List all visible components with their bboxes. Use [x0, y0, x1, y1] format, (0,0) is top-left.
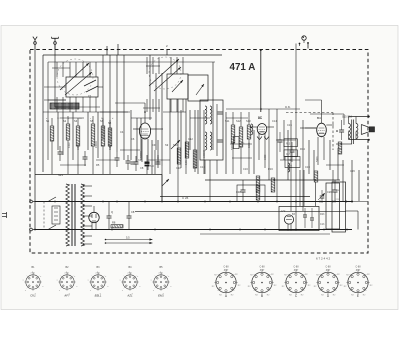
volume pot arrow [162, 179, 169, 186]
tone network box A [326, 183, 340, 229]
resistor R2 [66, 124, 70, 140]
socket A caption [225, 294, 228, 298]
wire tuner v0 [102, 55, 104, 140]
socket EBL1 top labels [97, 266, 101, 275]
coil L2 box [167, 74, 188, 99]
capacitor C right1 [336, 120, 344, 140]
wire dens v6 [136, 118, 138, 162]
resistor R32 [193, 150, 197, 168]
junction dots [34, 201, 348, 231]
tuning gang C1 plates [84, 80, 98, 98]
wire bus y180 [205, 179, 340, 181]
socket CK1 caption [30, 294, 36, 298]
wire dens v2 [72, 112, 74, 160]
IF transformer S4 box [200, 100, 223, 160]
wire border tick 1 [117, 44, 119, 55]
svg-text:Q: Q [111, 210, 113, 214]
svg-text:C-88: C-88 [326, 267, 332, 269]
wire R9 leads [248, 112, 250, 174]
wire tuner v12 [212, 62, 214, 150]
tube B1 CK1 [139, 123, 150, 139]
resistor R9 [247, 125, 251, 139]
svg-text:R13: R13 [286, 144, 291, 146]
socket AF7 caption [63, 294, 70, 298]
socket diagram E [346, 271, 370, 295]
capacitor C6 [134, 156, 139, 171]
model label 471 A [230, 62, 256, 73]
antenna symbol [33, 37, 37, 50]
svg-text:R14: R14 [300, 147, 305, 151]
svg-text:S8: S8 [108, 121, 112, 125]
wire right v2 [283, 120, 285, 160]
earth ground symbol [52, 37, 59, 50]
coil S7 [251, 112, 253, 135]
capacitor C20 [327, 180, 338, 202]
svg-text:R8: R8 [112, 221, 116, 225]
network box mid [237, 185, 265, 202]
socket CK1 pin numbers [23, 273, 45, 295]
svg-text:C13: C13 [200, 165, 205, 169]
socket EBL1 caption [95, 294, 102, 298]
wire output top [310, 114, 344, 125]
svg-text:S13: S13 [246, 119, 251, 123]
switch S1 wiper [60, 63, 92, 95]
resistor R10 [256, 176, 260, 192]
svg-text:3000: 3000 [248, 142, 251, 148]
resistor R8 [111, 221, 123, 228]
svg-text:C26: C26 [350, 169, 355, 173]
drawing number 67242 [316, 257, 331, 261]
svg-text:4000: 4000 [68, 142, 71, 148]
socket base EBL1 [89, 273, 107, 291]
capacitor C5 [126, 155, 131, 170]
wire right v1 [276, 109, 278, 201]
tube B5 AZ1 [89, 212, 99, 222]
socket A pin labels [212, 269, 241, 296]
wire dens v12 [197, 110, 199, 174]
socket E caption [357, 294, 359, 298]
wire mid v0 [154, 150, 156, 174]
mains terminals [30, 200, 33, 231]
socket E pin labels [344, 269, 373, 296]
capacitor C14 electrolytic [145, 155, 150, 174]
svg-text:1000: 1000 [264, 154, 267, 160]
C.K. network label [285, 105, 291, 109]
wire tuner v7 [169, 99, 171, 150]
power transformer core [72, 184, 75, 246]
resistor R8 [239, 127, 243, 147]
wire tuner v11 [203, 110, 205, 174]
wire dens v14 [253, 130, 255, 174]
wire border tick 3 [106, 46, 108, 55]
socket AZ1 caption [126, 294, 133, 298]
svg-text:C-88: C-88 [294, 267, 300, 269]
wire R2 leads [67, 116, 69, 174]
wire earth feed [55, 45, 70, 108]
svg-text:R23: R23 [320, 213, 325, 216]
tube B1 leads [133, 118, 163, 170]
wire dens v0 [57, 112, 59, 150]
socket EM1 caption [158, 294, 164, 298]
wire tuner v10 [194, 110, 196, 172]
socket EM1 top labels [160, 266, 164, 275]
resistor R6 [108, 128, 112, 146]
wire IF leads [205, 160, 217, 201]
wire R1 leads [51, 118, 53, 174]
wire dens v20 [351, 160, 353, 201]
capacitor C17b [290, 142, 295, 162]
svg-text:C20: C20 [327, 190, 332, 194]
wire tuner v6 [161, 73, 163, 166]
tube B4 label [317, 116, 321, 120]
osc trimmer arrows [172, 80, 204, 95]
IF coil windings [205, 104, 217, 156]
wire speaker top [349, 116, 370, 124]
grid cap wire B1 [144, 111, 146, 118]
socket CK1 top labels [32, 266, 36, 275]
vertical value labels [68, 141, 319, 168]
wire R7 leads [232, 112, 234, 174]
tube B4 leads [305, 125, 334, 165]
wire tuner v8 [177, 99, 179, 160]
wire bus y211 [135, 210, 346, 212]
wire grid row [115, 103, 145, 112]
voltage selector [52, 206, 60, 224]
svg-text:25000: 25000 [157, 155, 160, 162]
svg-text:R16: R16 [268, 167, 273, 171]
socket B pin labels [248, 269, 277, 296]
capacitor C2 [58, 146, 63, 161]
svg-text:C9: C9 [152, 143, 156, 147]
tuner box closures [44, 87, 103, 100]
IF trim caps [218, 112, 223, 142]
tube B2 label [258, 116, 263, 120]
svg-text:100000: 100000 [203, 149, 206, 158]
resistor R17 [256, 186, 260, 200]
wire R3 leads [77, 118, 79, 174]
svg-text:0,05: 0,05 [185, 160, 188, 165]
svg-text:R14: R14 [288, 160, 293, 162]
socket C top label [294, 267, 300, 272]
svg-text:471 A: 471 A [230, 62, 256, 73]
svg-text:500: 500 [109, 145, 112, 150]
wire mesh connectors [43, 107, 352, 165]
capacitor C15b [278, 132, 283, 152]
capacitor C3 [83, 151, 88, 166]
speaker [361, 125, 374, 135]
wire B4 top [305, 100, 322, 123]
resistor R4 [91, 124, 95, 146]
svg-text:C14: C14 [272, 119, 277, 123]
wire gram vertical [260, 49, 262, 112]
node 2 label [166, 44, 168, 48]
resistor R11 [271, 178, 275, 192]
coil box top edge [43, 55, 222, 62]
mains switch S18 [33, 197, 62, 230]
wire dens v10 [180, 110, 182, 168]
svg-text:C19: C19 [305, 165, 310, 169]
socket EM1 pin numbers [151, 273, 173, 295]
socket AZ1 top labels [129, 266, 133, 275]
tube B2 8C [257, 124, 267, 135]
wire dens v4 [97, 112, 99, 158]
mains cord stubs [2, 212, 7, 218]
socket diagram A [214, 271, 238, 295]
coil S14 [288, 163, 290, 172]
socket base AF7 [58, 273, 76, 291]
svg-text:C17: C17 [286, 154, 291, 156]
svg-text:C43: C43 [281, 210, 286, 213]
svg-text:C12: C12 [188, 137, 193, 141]
wire right v5 [302, 120, 304, 211]
svg-text:S9: S9 [165, 143, 169, 147]
socket D pin labels [314, 269, 343, 296]
svg-text:8C: 8C [258, 116, 263, 120]
socket EBL1 pin numbers [88, 273, 110, 295]
wire border tick 2 [166, 50, 168, 56]
wire tuner v5 [155, 73, 157, 150]
socket D top label [326, 267, 332, 272]
schematic dashed border [30, 50, 368, 254]
socket B caption [261, 294, 263, 298]
wire R5 leads [102, 118, 104, 174]
resistor R7 [231, 125, 235, 143]
capacitor C23 [107, 202, 114, 230]
wire dens v15 [287, 130, 289, 180]
wire dens v11 [189, 110, 191, 150]
wire right v4 [295, 44, 297, 230]
magic eye box [279, 207, 319, 231]
box R14 [285, 157, 300, 168]
socket diagram C [284, 271, 308, 295]
tube B4 EBL1 [317, 123, 327, 137]
socket C caption [295, 294, 298, 298]
svg-text:B: B [261, 294, 263, 298]
wire to border right [345, 201, 367, 203]
wire dens v8 [151, 140, 153, 174]
svg-text:C13: C13 [320, 223, 325, 226]
wave switch S2 arc [149, 57, 181, 89]
svg-text:C16: C16 [243, 167, 248, 171]
gramophone input G [299, 36, 309, 49]
cap C19 arrow [318, 190, 325, 203]
socket D caption [327, 294, 330, 298]
box R13 [284, 139, 297, 147]
wire mid v3 [177, 160, 179, 201]
wire tuner v9 [185, 99, 187, 168]
svg-text:10000: 10000 [77, 143, 80, 150]
transformer label S21 [58, 173, 63, 177]
svg-text:C15: C15 [287, 123, 292, 127]
tone network box B [332, 182, 346, 232]
tube B2 leads [250, 127, 274, 168]
wire right v0 [268, 109, 270, 180]
wire antenna feed [34, 50, 36, 230]
capacitor C24 [127, 202, 135, 230]
wire tuner v3 [123, 55, 125, 160]
component value labels [46, 119, 355, 173]
socket C pin labels [282, 269, 311, 296]
label C26 [182, 196, 189, 200]
wave switch S1 arc [57, 59, 93, 95]
svg-text:5,5: 5,5 [126, 236, 130, 240]
wire mid v2 [169, 150, 171, 174]
capacitor C10 row [131, 159, 161, 168]
wire tone verts [300, 170, 333, 206]
switch S2 wiper [149, 59, 181, 91]
magic eye parts [281, 208, 314, 228]
coil L1 box [66, 77, 98, 97]
resistor R31 [185, 142, 189, 158]
resistor R1 [50, 126, 54, 141]
tone labels [320, 190, 340, 226]
wire tuner v4 [149, 55, 151, 120]
wire bus y201 [35, 201, 353, 203]
socket diagram D [316, 271, 340, 295]
wire dens v7 [140, 118, 142, 160]
wire bus y229 [35, 229, 352, 231]
wire dens v16 [308, 140, 310, 174]
C.K. dashed box [286, 113, 333, 151]
tuner coil stub wires [44, 57, 183, 112]
trimmer arrow C11 [171, 140, 180, 149]
svg-text:6 7 2 4 4 2: 6 7 2 4 4 2 [316, 257, 331, 261]
socket A top label [224, 267, 230, 272]
svg-text:510: 510 [150, 165, 155, 168]
wire dens v5 [130, 110, 132, 160]
heater wire arrows [105, 236, 153, 245]
power transformer T primary [66, 184, 70, 246]
resistor R right1 [338, 142, 342, 154]
svg-text:R5: R5 [96, 163, 100, 167]
svg-text:20000: 20000 [95, 141, 98, 148]
output transformer label [342, 115, 353, 119]
wire dens v17 [313, 150, 315, 180]
dial drum [50, 103, 79, 109]
svg-text:C-88: C-88 [224, 267, 230, 269]
wire speaker bottom [349, 132, 370, 141]
svg-text:S3: S3 [74, 119, 78, 123]
wire R6 leads [109, 120, 111, 174]
resistor R3 [76, 126, 80, 146]
svg-text:S2: S2 [63, 119, 67, 123]
svg-text:C.K.: C.K. [285, 105, 291, 109]
wire top bus gram [226, 108, 300, 110]
capacitor C4 [115, 152, 120, 167]
socket E top label [356, 267, 362, 272]
svg-text:C-88: C-88 [356, 267, 362, 269]
wire dens v22 [342, 160, 344, 201]
box C17 [284, 150, 297, 157]
svg-text:C8: C8 [131, 210, 135, 214]
socket AZ1 pin numbers [120, 273, 142, 295]
wire tuner v1 [109, 55, 111, 148]
svg-text:C4: C4 [120, 130, 124, 134]
diode plates B2 [257, 137, 269, 140]
wire R4 leads [92, 116, 94, 174]
svg-text:310: 310 [138, 159, 143, 162]
socket B top label [260, 267, 266, 272]
wire dens v18 [329, 140, 331, 170]
socket AF7 pin numbers [57, 273, 79, 295]
tube B5 leads [92, 206, 96, 230]
wire right v3 [290, 120, 292, 211]
coil box left wall [43, 55, 48, 172]
wire dens v13 [225, 112, 227, 174]
wire mid v4 [185, 168, 187, 174]
wire R8 leads [240, 112, 242, 174]
resistor R23 [314, 171, 318, 182]
svg-text:B4: B4 [317, 116, 321, 120]
capacitor C18 [236, 180, 246, 202]
svg-text:50000: 50000 [140, 151, 143, 158]
wire bus y174 [35, 175, 162, 202]
svg-text:E: E [357, 294, 359, 298]
wire bus y234 [200, 233, 330, 235]
coil L3 box [188, 75, 208, 101]
socket AF7 top labels [66, 266, 70, 275]
svg-text:C10: C10 [176, 166, 181, 170]
svg-text:5000: 5000 [316, 156, 319, 162]
svg-text:C-88: C-88 [260, 267, 266, 269]
power transformer secondary [81, 184, 85, 246]
transformer taps [83, 185, 92, 245]
resistor 40n [234, 137, 246, 149]
resistor R30 [177, 148, 181, 164]
wire tone leads [332, 201, 358, 230]
socket base EM1 [152, 273, 170, 291]
svg-text:C6: C6 [131, 137, 135, 141]
socket diagram B [250, 271, 274, 295]
wire dens v19 [337, 150, 339, 180]
wire dens v3 [87, 112, 89, 150]
wire dens v9 [157, 140, 159, 168]
coil terminal labels [46, 118, 114, 120]
wire tuner v2 [116, 55, 118, 152]
wire dens v1 [62, 112, 64, 155]
output transformer S15 S16 [349, 120, 358, 145]
wire bus y196 [160, 196, 310, 198]
socket base CK1 [24, 273, 42, 291]
wire mid v1 [161, 166, 163, 201]
tube B3 EM1 [284, 215, 293, 231]
svg-text:S21: S21 [58, 173, 63, 177]
svg-text:S12: S12 [236, 119, 241, 123]
socket base AZ1 [121, 273, 139, 291]
resistor R5 [101, 126, 105, 146]
wire dens v21 [358, 170, 360, 201]
svg-text:C8: C8 [140, 166, 144, 170]
